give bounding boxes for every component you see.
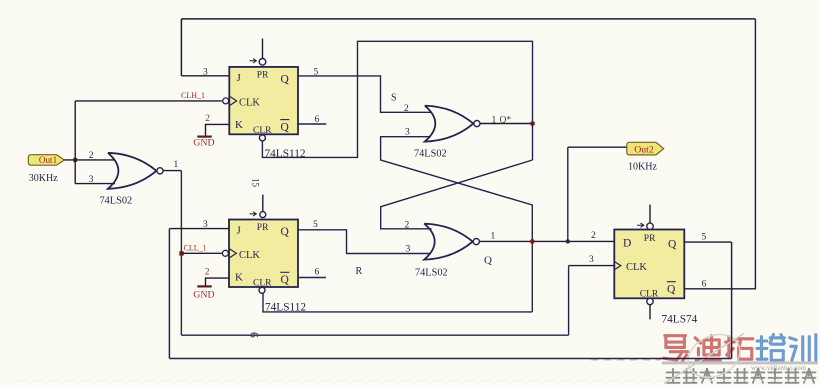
svg-text:74LS02: 74LS02 — [100, 196, 133, 207]
node A junction Out1 — [73, 158, 78, 163]
wire U1B pin3 J input — [169, 228, 229, 230]
junction Q node Out2 branch — [566, 239, 570, 243]
svg-text:74LS112: 74LS112 — [265, 148, 306, 160]
wire U3 pin5 Q output — [684, 241, 731, 243]
svg-text:3: 3 — [589, 255, 594, 265]
svg-text:CLK: CLK — [239, 250, 260, 261]
svg-text:5: 5 — [702, 233, 707, 243]
wire J2 feedback right vertical — [731, 242, 733, 358]
wire U1A pin1 CLK input CLH_1 — [75, 100, 222, 102]
wire Qstar vertical to cross — [532, 124, 534, 161]
NOR gate U4B 74LS02 — [425, 106, 474, 142]
CLK bubble and edge triangle U1B — [222, 250, 228, 256]
svg-text:J: J — [237, 225, 242, 237]
svg-text:3: 3 — [89, 175, 94, 185]
svg-text:2: 2 — [89, 151, 94, 161]
svg-text:Q: Q — [668, 239, 677, 251]
wire U1A pin15 CLR to Qstar net — [262, 41, 532, 157]
svg-text:K: K — [235, 119, 243, 131]
svg-text:74LS02: 74LS02 — [415, 268, 448, 279]
JK flip-flop U1A 74LS112 body — [229, 67, 298, 134]
svg-text:6: 6 — [702, 279, 707, 289]
wire U1B pin5 Q to node R — [298, 230, 431, 254]
svg-text:PR: PR — [257, 223, 269, 233]
svg-text:15: 15 — [250, 178, 260, 188]
wire CLL_1 bottom horizontal — [181, 334, 568, 336]
wire node A down to U4A pin3 — [75, 183, 115, 185]
port Out1 input flag — [28, 155, 64, 166]
CLK bubble and edge triangle U1A — [223, 98, 229, 104]
svg-text:1: 1 — [174, 160, 179, 170]
wire U4B pin3 from Q cross diagonal — [381, 137, 533, 312]
svg-text:GND: GND — [193, 290, 214, 301]
svg-text:2: 2 — [205, 267, 210, 277]
svg-text:3: 3 — [203, 67, 208, 77]
svg-text:3: 3 — [405, 127, 410, 137]
wire U1B pin13 CLK input CLL_1 — [181, 252, 222, 254]
pin 4 PR bubble U1A — [259, 59, 266, 66]
svg-text:2: 2 — [404, 104, 409, 114]
wire U4B output Qstar — [481, 123, 533, 125]
pin 10 PR bubble U1B — [260, 212, 266, 218]
svg-text:R: R — [356, 266, 363, 277]
wire net J1 feedback right vertical — [754, 19, 756, 289]
wire U1A pin3 J input — [181, 75, 229, 77]
svg-text:Q: Q — [667, 284, 676, 296]
wire U4C output Q to U3 D — [480, 240, 614, 242]
wire CLL_1 vertical — [180, 171, 182, 336]
svg-text:PR: PR — [644, 234, 656, 244]
pin 4 PR stub U3 — [649, 205, 651, 224]
pin 15 CLR bubble U1A — [259, 135, 265, 141]
svg-text:2: 2 — [591, 231, 596, 241]
wire cross diagonal Qstar to U4C pin2 — [381, 160, 533, 229]
svg-text:CLH_1: CLH_1 — [181, 91, 205, 100]
pin 4 PR stub U1A — [262, 39, 264, 59]
svg-text:Q: Q — [484, 255, 492, 267]
ground GND2 bar — [197, 285, 211, 287]
wire U1B pin2 K to ground — [206, 278, 230, 286]
wire Q up to Out2 — [567, 147, 569, 241]
pin 1 CLR stub U3 — [649, 305, 651, 320]
svg-text:6: 6 — [248, 332, 260, 338]
JK flip-flop U1B 74LS112 body — [229, 220, 298, 288]
wire U1B pin6 Qbar stub — [298, 277, 326, 279]
svg-text:3: 3 — [406, 244, 411, 254]
svg-text:CLL_1: CLL_1 — [184, 244, 207, 253]
svg-text:K: K — [235, 272, 243, 284]
wire U1A pin6 Qbar stub — [298, 123, 326, 125]
NOR gate U4A 74LS02 — [108, 153, 156, 189]
svg-text:S: S — [391, 93, 397, 104]
pin number 4 mark U1A — [250, 59, 257, 63]
wire U1B pin14 CLR to Q net — [263, 293, 532, 312]
svg-text:PR: PR — [257, 71, 269, 81]
pin 4 PR bubble U3 — [647, 223, 653, 229]
pin 1 CLR bubble U3 — [647, 298, 653, 304]
wire CLL_1 up to U3 CLK — [568, 266, 570, 336]
svg-text:Out2: Out2 — [634, 144, 654, 155]
pin 14 CLR bubble U1B — [259, 287, 265, 293]
svg-text:2: 2 — [205, 114, 210, 124]
wire net J1 feedback top horizontal — [181, 18, 755, 20]
svg-text:CLK: CLK — [626, 262, 647, 273]
svg-text:10KHz: 10KHz — [628, 162, 657, 173]
pin number 4 mark U3 — [637, 223, 644, 227]
junction Q node CLR2 branch — [530, 239, 535, 244]
svg-text:CLK: CLK — [239, 98, 260, 109]
wire Out2 horizontal — [568, 146, 627, 148]
wire U3 pin3 CLK input — [569, 265, 615, 267]
svg-text:Q: Q — [281, 122, 290, 134]
wire U1A pin2 K to ground — [206, 124, 230, 136]
D flip-flop U3 74LS74 body — [614, 230, 684, 299]
wire U1A pin5 Q to node S — [298, 76, 432, 112]
pin 10 PR stub U1B — [262, 195, 264, 212]
wire U3 pin6 Qbar output — [684, 288, 756, 290]
svg-text:Q: Q — [281, 274, 290, 286]
wire net J1 feedback left vertical — [180, 19, 182, 76]
svg-text:74LS74: 74LS74 — [662, 314, 698, 326]
svg-text:Q: Q — [281, 74, 290, 86]
wire node A up to CLK1 — [74, 101, 76, 184]
port Out2 output flag — [627, 142, 664, 155]
svg-text:30KHz: 30KHz — [29, 173, 58, 184]
svg-text:GND: GND — [193, 138, 214, 149]
NOR gate U4C 74LS02 — [424, 224, 473, 260]
CLK edge triangle U3 — [614, 262, 621, 270]
junction CLL_1 node — [179, 251, 183, 255]
wire U4A output to vertical — [164, 170, 182, 172]
svg-text:Out1: Out1 — [39, 155, 58, 165]
ground GND1 bar — [197, 136, 211, 138]
svg-text:J: J — [237, 72, 242, 84]
svg-text:2: 2 — [405, 220, 410, 230]
junction Qstar node — [530, 121, 535, 126]
svg-text:1: 1 — [491, 232, 496, 242]
pin number mark U1B — [250, 212, 257, 216]
svg-text:5: 5 — [313, 220, 318, 230]
svg-text:Q: Q — [281, 226, 290, 238]
svg-text:74LS02: 74LS02 — [414, 149, 447, 160]
wire Out1 to node A — [64, 159, 114, 161]
wire J2 feedback bottom horizontal — [169, 358, 731, 360]
wire J2 feedback left vertical — [168, 229, 170, 359]
svg-text:6: 6 — [315, 267, 320, 277]
svg-text:D: D — [623, 238, 631, 250]
